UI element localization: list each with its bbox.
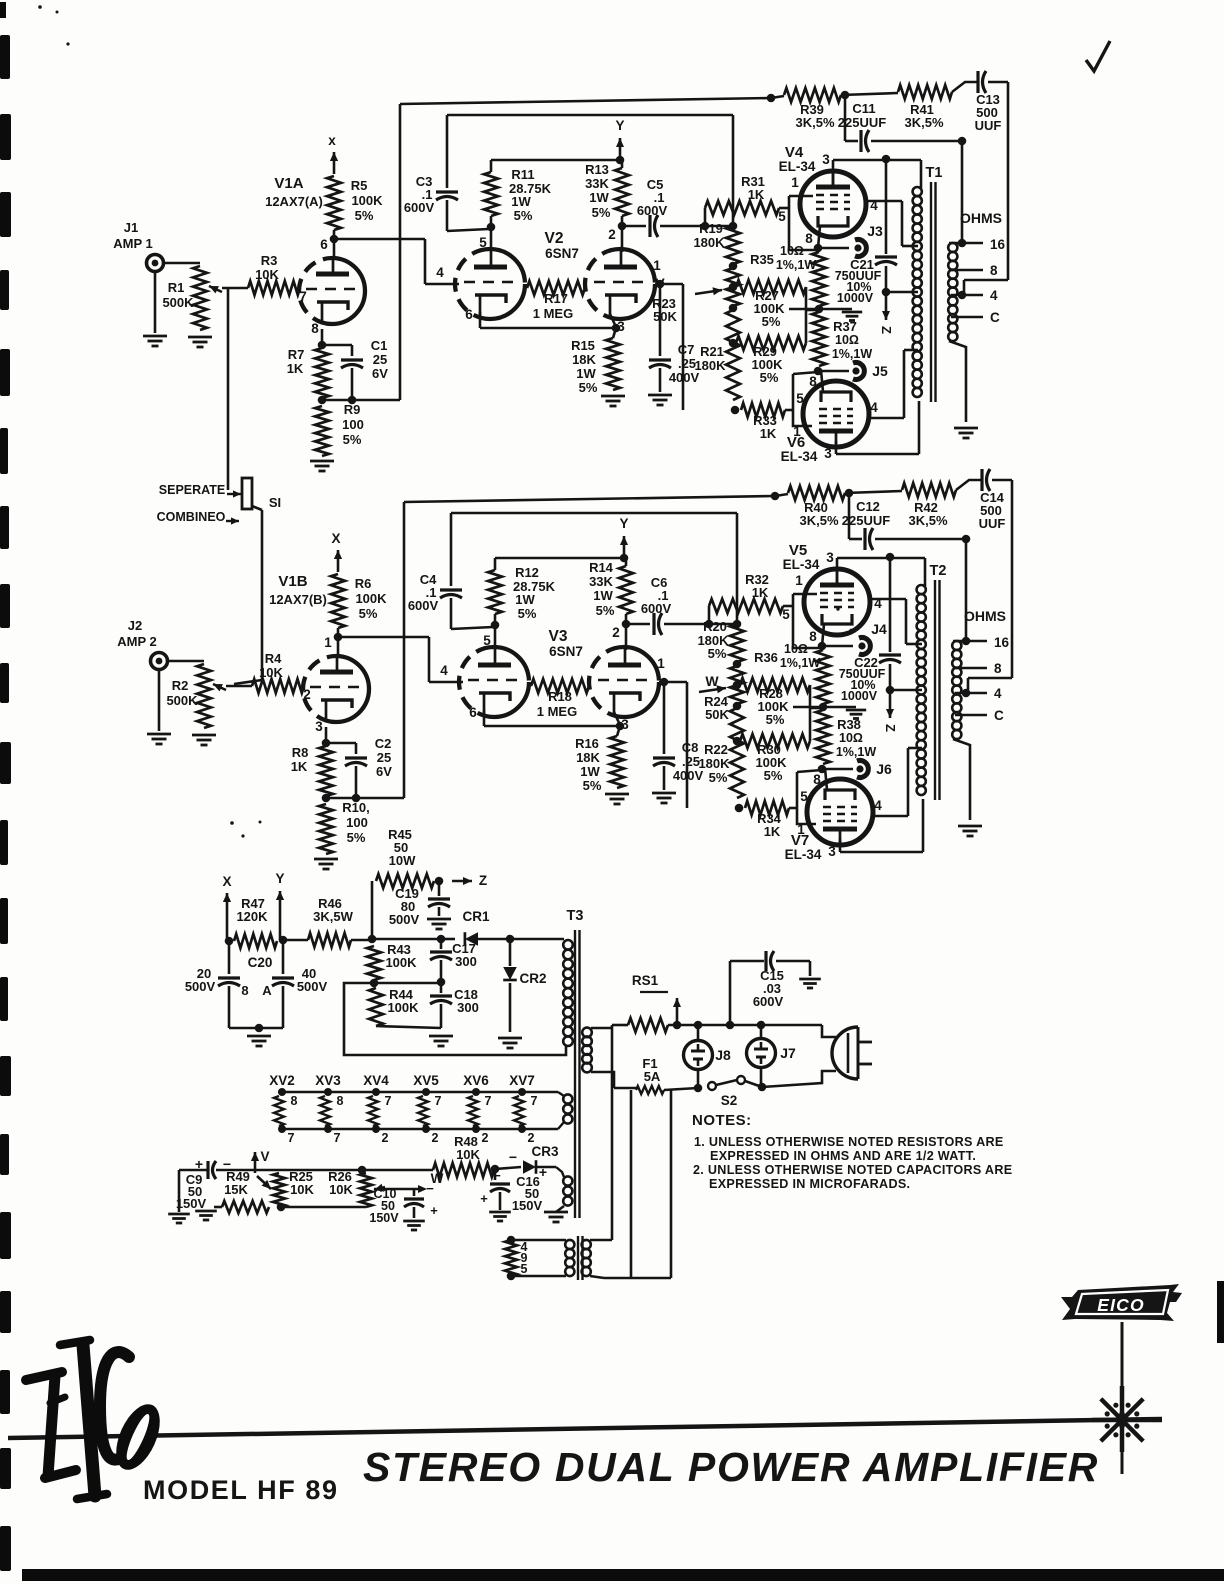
svg-text:1%,1W: 1%,1W: [776, 258, 816, 272]
svg-text:1 MEG: 1 MEG: [533, 306, 573, 321]
svg-text:R9: R9: [344, 402, 361, 417]
svg-text:7: 7: [435, 1094, 442, 1108]
svg-text:6V: 6V: [376, 764, 392, 779]
svg-text:1000V: 1000V: [837, 291, 874, 305]
svg-text:1: 1: [653, 258, 661, 273]
svg-text:V: V: [655, 275, 665, 291]
svg-text:10K: 10K: [290, 1182, 314, 1197]
svg-text:4: 4: [436, 265, 444, 280]
svg-text:5A: 5A: [644, 1069, 661, 1084]
svg-text:5%: 5%: [355, 208, 374, 223]
svg-text:XV7: XV7: [509, 1073, 535, 1088]
svg-text:NOTES:: NOTES:: [692, 1112, 752, 1129]
svg-text:3: 3: [315, 719, 323, 734]
svg-text:6: 6: [469, 705, 477, 720]
svg-text:3K,5%: 3K,5%: [799, 513, 838, 528]
svg-text:12AX7(A): 12AX7(A): [265, 194, 323, 209]
svg-text:C8: C8: [682, 740, 699, 755]
svg-text:4: 4: [870, 400, 878, 415]
svg-text:10K: 10K: [255, 267, 279, 282]
svg-text:R6: R6: [355, 576, 372, 591]
svg-text:5%: 5%: [514, 208, 533, 223]
svg-text:500K: 500K: [162, 295, 194, 310]
svg-text:25: 25: [377, 750, 391, 765]
svg-text:J6: J6: [876, 761, 892, 777]
svg-text:8: 8: [805, 231, 813, 246]
svg-text:2: 2: [482, 1131, 489, 1145]
svg-text:8: 8: [311, 321, 319, 336]
svg-text:6V: 6V: [372, 366, 388, 381]
svg-text:SEPERATE: SEPERATE: [159, 483, 225, 497]
svg-text:5%: 5%: [343, 432, 362, 447]
svg-text:3K,5W: 3K,5W: [313, 909, 353, 924]
svg-text:R3: R3: [261, 253, 278, 268]
svg-text:3: 3: [824, 446, 832, 461]
svg-text:X: X: [222, 874, 231, 889]
svg-text:R35: R35: [750, 252, 774, 267]
svg-text:150V: 150V: [512, 1198, 543, 1213]
svg-text:CR1: CR1: [462, 909, 489, 924]
svg-text:J5: J5: [872, 363, 888, 379]
svg-text:5: 5: [778, 209, 786, 224]
svg-text:C: C: [990, 310, 1000, 325]
svg-text:180K: 180K: [693, 235, 725, 250]
svg-text:3K,5%: 3K,5%: [904, 115, 943, 130]
svg-text:1: 1: [791, 175, 799, 190]
svg-text:33K: 33K: [585, 176, 609, 191]
svg-text:AMP 2: AMP 2: [117, 634, 157, 649]
svg-text:5%: 5%: [596, 603, 615, 618]
svg-text:5%: 5%: [762, 314, 781, 329]
svg-text:CR2: CR2: [519, 971, 546, 986]
svg-text:R13: R13: [585, 162, 609, 177]
svg-text:R15: R15: [571, 338, 595, 353]
svg-text:V1A: V1A: [274, 175, 303, 192]
svg-text:−: −: [509, 1149, 517, 1165]
svg-text:UUF: UUF: [979, 516, 1006, 531]
svg-text:225UUF: 225UUF: [838, 115, 886, 130]
svg-text:C1: C1: [371, 338, 388, 353]
svg-text:10Ω: 10Ω: [839, 731, 863, 745]
svg-text:R2: R2: [172, 678, 189, 693]
svg-text:8: 8: [813, 772, 821, 787]
svg-text:EICO: EICO: [1097, 1295, 1145, 1315]
svg-text:100K: 100K: [351, 193, 383, 208]
svg-text:16: 16: [990, 237, 1006, 252]
svg-text:1W: 1W: [589, 190, 609, 205]
svg-text:1W: 1W: [576, 366, 596, 381]
svg-text:2: 2: [608, 227, 616, 242]
svg-text:10Ω: 10Ω: [835, 333, 859, 347]
svg-text:600V: 600V: [408, 598, 439, 613]
svg-text:15K: 15K: [224, 1182, 248, 1197]
svg-text:Z: Z: [883, 724, 898, 732]
svg-text:5%: 5%: [347, 830, 366, 845]
svg-text:OHMS: OHMS: [964, 608, 1006, 624]
svg-text:R11: R11: [511, 167, 534, 182]
svg-text:R7: R7: [288, 347, 305, 362]
svg-text:5%: 5%: [592, 205, 611, 220]
svg-text:8: 8: [809, 374, 817, 389]
svg-text:V: V: [260, 1149, 269, 1164]
svg-text:300: 300: [457, 1000, 479, 1015]
svg-text:5%: 5%: [518, 606, 537, 621]
svg-text:R36: R36: [754, 650, 778, 665]
svg-text:2: 2: [432, 1131, 439, 1145]
svg-text:1: 1: [657, 656, 665, 671]
svg-text:1W: 1W: [580, 764, 600, 779]
svg-text:5%: 5%: [579, 380, 598, 395]
svg-text:18K: 18K: [572, 352, 596, 367]
svg-text:120K: 120K: [236, 909, 268, 924]
svg-text:5: 5: [800, 789, 808, 804]
svg-text:Y: Y: [275, 871, 284, 886]
svg-text:6SN7: 6SN7: [549, 644, 583, 659]
svg-text:CR3: CR3: [531, 1144, 558, 1159]
svg-text:OHMS: OHMS: [960, 210, 1002, 226]
svg-text:100: 100: [342, 417, 364, 432]
svg-text:16: 16: [994, 635, 1010, 650]
svg-text:X: X: [331, 531, 340, 546]
svg-text:C12: C12: [856, 499, 880, 514]
svg-text:25: 25: [373, 352, 387, 367]
svg-text:6: 6: [320, 237, 328, 252]
svg-text:R17: R17: [544, 291, 568, 306]
svg-text:7: 7: [531, 1094, 538, 1108]
svg-text:10K: 10K: [329, 1182, 353, 1197]
svg-text:4: 4: [994, 686, 1002, 701]
svg-text:8: 8: [291, 1094, 298, 1108]
svg-text:J1: J1: [124, 220, 138, 235]
svg-text:J7: J7: [780, 1045, 796, 1061]
svg-text:J3: J3: [867, 223, 883, 239]
svg-text:1K: 1K: [748, 187, 765, 202]
svg-text:10Ω: 10Ω: [784, 642, 808, 656]
svg-text:Z: Z: [879, 326, 894, 334]
svg-text:18K: 18K: [576, 750, 600, 765]
svg-text:MODEL HF 89: MODEL HF 89: [143, 1475, 339, 1505]
svg-text:5%: 5%: [760, 370, 779, 385]
svg-text:50K: 50K: [705, 707, 729, 722]
svg-text:UUF: UUF: [975, 118, 1002, 133]
svg-text:SI: SI: [269, 495, 281, 510]
svg-text:180K: 180K: [694, 358, 726, 373]
svg-text:5%: 5%: [766, 712, 785, 727]
svg-text:100K: 100K: [355, 591, 387, 606]
svg-text:1K: 1K: [291, 759, 308, 774]
svg-text:R4: R4: [265, 651, 282, 666]
svg-text:1%,1W: 1%,1W: [836, 745, 876, 759]
svg-text:1W: 1W: [515, 592, 535, 607]
svg-text:R21: R21: [700, 344, 724, 359]
svg-text:1%,1W: 1%,1W: [780, 656, 820, 670]
svg-text:R22: R22: [704, 742, 728, 757]
svg-text:4: 4: [990, 288, 998, 303]
svg-text:R8: R8: [292, 745, 309, 760]
svg-text:1000V: 1000V: [841, 689, 878, 703]
svg-text:8: 8: [809, 629, 817, 644]
svg-text:2: 2: [528, 1131, 535, 1145]
svg-text:2: 2: [612, 625, 620, 640]
svg-text:225UUF: 225UUF: [842, 513, 890, 528]
svg-text:+: +: [480, 1191, 488, 1206]
svg-text:AMP 1: AMP 1: [113, 236, 153, 251]
svg-text:V1B: V1B: [278, 573, 307, 590]
svg-text:5: 5: [479, 235, 487, 250]
svg-text:600V: 600V: [753, 994, 784, 1009]
svg-text:XV4: XV4: [363, 1073, 389, 1088]
svg-text:W: W: [705, 673, 719, 689]
svg-text:10W: 10W: [389, 853, 416, 868]
svg-text:XV3: XV3: [315, 1073, 341, 1088]
svg-text:1%,1W: 1%,1W: [832, 347, 872, 361]
svg-text:5: 5: [483, 633, 491, 648]
svg-text:C11: C11: [852, 101, 875, 116]
svg-text:T2: T2: [930, 563, 947, 579]
svg-text:R12: R12: [515, 565, 539, 580]
svg-text:3: 3: [828, 844, 836, 859]
svg-text:8: 8: [994, 661, 1002, 676]
svg-text:.25: .25: [682, 754, 700, 769]
svg-text:5%: 5%: [764, 768, 783, 783]
svg-text:33K: 33K: [589, 574, 613, 589]
svg-text:150V: 150V: [369, 1211, 399, 1225]
svg-text:R14: R14: [589, 560, 614, 575]
svg-text:7: 7: [385, 1094, 392, 1108]
svg-text:T1: T1: [926, 165, 943, 181]
svg-text:1W: 1W: [511, 194, 531, 209]
svg-text:500V: 500V: [185, 979, 216, 994]
svg-text:3K,5%: 3K,5%: [795, 115, 834, 130]
svg-text:10K: 10K: [456, 1147, 480, 1162]
svg-text:RS1: RS1: [632, 973, 659, 988]
svg-text:EL-34: EL-34: [785, 847, 822, 862]
svg-text:150V: 150V: [176, 1196, 207, 1211]
svg-text:.25: .25: [678, 356, 696, 371]
svg-text:7: 7: [288, 1131, 295, 1145]
svg-text:J8: J8: [715, 1047, 731, 1063]
svg-text:6: 6: [465, 307, 473, 322]
svg-text:J2: J2: [128, 618, 142, 633]
svg-text:XV6: XV6: [463, 1073, 489, 1088]
svg-text:T3: T3: [567, 908, 584, 924]
svg-text:EL-34: EL-34: [779, 159, 816, 174]
svg-text:A: A: [262, 983, 272, 998]
svg-text:1K: 1K: [760, 426, 777, 441]
svg-text:R16: R16: [575, 736, 599, 751]
svg-text:−: −: [493, 1168, 501, 1183]
svg-text:−: −: [426, 1181, 434, 1196]
svg-text:+: +: [430, 1203, 438, 1218]
svg-text:5%: 5%: [359, 606, 378, 621]
svg-text:6SN7: 6SN7: [545, 246, 579, 261]
svg-text:EXPRESSED IN MICROFARADS.: EXPRESSED IN MICROFARADS.: [709, 1177, 910, 1191]
svg-text:100K: 100K: [387, 1000, 419, 1015]
svg-text:R18: R18: [548, 689, 572, 704]
svg-text:R1: R1: [168, 280, 185, 295]
svg-text:+: +: [539, 1164, 547, 1180]
svg-text:500V: 500V: [389, 912, 420, 927]
svg-text:3: 3: [822, 152, 830, 167]
svg-text:COMBINEO: COMBINEO: [157, 510, 226, 524]
svg-text:1: 1: [324, 635, 332, 650]
svg-text:Y: Y: [619, 516, 628, 531]
svg-text:V2: V2: [545, 230, 564, 247]
svg-text:50K: 50K: [653, 309, 677, 324]
svg-text:J4: J4: [871, 621, 887, 637]
svg-text:100: 100: [346, 815, 368, 830]
svg-text:C7: C7: [678, 342, 695, 357]
svg-text:600V: 600V: [641, 601, 672, 616]
svg-text:7: 7: [485, 1094, 492, 1108]
svg-text:XV5: XV5: [413, 1073, 439, 1088]
svg-text:4: 4: [440, 663, 448, 678]
svg-text:5%: 5%: [709, 770, 728, 785]
svg-text:8: 8: [241, 983, 248, 998]
svg-text:8: 8: [990, 263, 998, 278]
svg-text:600V: 600V: [637, 203, 668, 218]
svg-text:5%: 5%: [583, 778, 602, 793]
svg-text:4: 4: [874, 798, 882, 813]
svg-text:1K: 1K: [287, 361, 304, 376]
svg-text:2: 2: [382, 1131, 389, 1145]
svg-text:EXPRESSED IN OHMS AND ARE 1/2: EXPRESSED IN OHMS AND ARE 1/2 WATT.: [710, 1149, 976, 1163]
svg-text:10Ω: 10Ω: [780, 244, 804, 258]
svg-text:R37: R37: [833, 319, 857, 334]
svg-text:8: 8: [337, 1094, 344, 1108]
svg-text:1K: 1K: [764, 824, 781, 839]
svg-text:5: 5: [521, 1262, 528, 1276]
svg-text:STEREO DUAL POWER AMPLIFIER: STEREO DUAL POWER AMPLIFIER: [363, 1444, 1099, 1490]
svg-text:2. UNLESS OTHERWISE NOTED CAPA: 2. UNLESS OTHERWISE NOTED CAPACITORS ARE: [693, 1163, 1012, 1177]
svg-text:100K: 100K: [385, 955, 417, 970]
svg-text:500K: 500K: [166, 693, 198, 708]
svg-text:300: 300: [455, 954, 477, 969]
svg-text:V3: V3: [549, 628, 568, 645]
svg-text:7: 7: [334, 1131, 341, 1145]
svg-text:x: x: [328, 133, 336, 148]
svg-text:C: C: [994, 708, 1004, 723]
svg-text:5%: 5%: [708, 646, 727, 661]
svg-text:3K,5%: 3K,5%: [908, 513, 947, 528]
svg-text:XV2: XV2: [269, 1073, 295, 1088]
svg-text:S2: S2: [721, 1093, 738, 1108]
svg-text:Z: Z: [479, 873, 487, 888]
svg-text:EL-34: EL-34: [783, 557, 820, 572]
svg-text:C2: C2: [375, 736, 392, 751]
svg-text:1: 1: [795, 573, 803, 588]
svg-text:1K: 1K: [752, 585, 769, 600]
svg-text:1. UNLESS OTHERWISE NOTED RESI: 1. UNLESS OTHERWISE NOTED RESISTORS ARE: [694, 1135, 1004, 1149]
svg-text:600V: 600V: [404, 200, 435, 215]
svg-text:C20: C20: [248, 955, 273, 970]
svg-text:5: 5: [796, 391, 804, 406]
svg-text:Y: Y: [615, 118, 624, 133]
svg-text:1W: 1W: [593, 588, 613, 603]
svg-text:500V: 500V: [297, 979, 328, 994]
svg-text:180K: 180K: [698, 756, 730, 771]
svg-text:3: 3: [826, 550, 834, 565]
svg-text:R5: R5: [351, 178, 368, 193]
svg-text:1 MEG: 1 MEG: [537, 704, 577, 719]
svg-text:5: 5: [782, 607, 790, 622]
svg-text:12AX7(B): 12AX7(B): [269, 592, 327, 607]
svg-text:EL-34: EL-34: [781, 449, 818, 464]
svg-text:R10,: R10,: [342, 800, 369, 815]
svg-text:R38: R38: [837, 717, 861, 732]
